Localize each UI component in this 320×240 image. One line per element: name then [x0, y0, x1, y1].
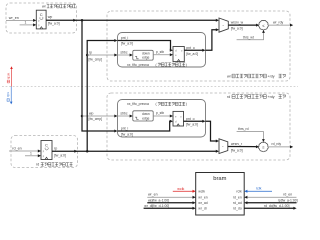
svg-text:rd_rdy: rd_rdy	[272, 142, 282, 146]
wire rp[fw_cmp] strobe branch	[87, 54, 117, 57]
wire wp vertical to rd side	[82, 20, 118, 132]
wire rp bus horizontal	[52, 150, 219, 153]
svg-text:wr_di[fw_d-1:00]: wr_di[fw_d-1:00]	[144, 204, 169, 208]
svg-text:1: 1	[25, 21, 27, 25]
svg-text:rd_ad: rd_ad	[233, 201, 242, 205]
label pnt_o U1	[186, 46, 195, 50]
svg-text:): )	[186, 102, 187, 106]
wire p_stb U2	[153, 115, 173, 118]
svg-text:rp: rp	[54, 147, 57, 151]
svg-text:wr_rdy: wr_rdy	[273, 20, 283, 24]
svg-text:xx_fifo_precva: xx_fifo_precva	[127, 102, 149, 106]
label rd_en	[12, 146, 21, 150]
svg-text:pnt_i: pnt_i	[121, 127, 129, 131]
clock domain separator dashed line	[2, 86, 298, 88]
label 1 (rd)	[30, 151, 32, 155]
wire rd_do bus	[244, 207, 296, 210]
svg-text:wclk: wclk	[6, 73, 10, 80]
svg-text:rd_do[fw_d-1:00]: rd_do[fw_d-1:00]	[264, 204, 290, 208]
label pnt_i width U2	[121, 132, 133, 136]
flip-flop FF1	[173, 47, 184, 62]
label wr-side diff calc + rdy gen	[227, 74, 286, 78]
svg-text:p_stb: p_stb	[156, 111, 164, 115]
wire pnt_i U2	[118, 120, 174, 131]
subtractor A1 (wr side)	[219, 18, 228, 32]
wire constant-1 (rd)	[25, 154, 41, 157]
svg-text:pnt_o: pnt_o	[186, 117, 195, 121]
wire rd_ad bus	[244, 201, 296, 204]
wire rd_rdy	[268, 145, 293, 148]
counter wr C symbol	[40, 12, 43, 19]
label wclk domain (red, rotated)	[6, 73, 10, 83]
handoff box U2 (address receive, rd side)	[118, 100, 206, 138]
label pnt_i U2	[121, 127, 129, 131]
svg-text:[fw_a:0]: [fw_a:0]	[231, 27, 243, 31]
handoff box U1 (address receive, wr side)	[118, 33, 206, 68]
wire wclk (red)	[173, 190, 196, 193]
rd-side address counter dashed box	[11, 136, 78, 168]
label rp strobe width	[89, 58, 103, 62]
svg-text:rd: rd	[36, 163, 39, 167]
wire rd_en	[9, 150, 41, 153]
node rp junction	[86, 150, 89, 153]
wire wp[fw_cmp] strobe branch	[82, 115, 118, 118]
label pnt_o U2	[186, 117, 195, 121]
svg-text:wr_en: wr_en	[9, 16, 19, 20]
svg-text:[fw_a:0]: [fw_a:0]	[186, 52, 198, 56]
svg-text:[fw_a:0]: [fw_a:0]	[54, 153, 66, 157]
svg-text:rd_en: rd_en	[283, 193, 292, 197]
wire strbc U1	[118, 54, 133, 57]
svg-text:wrsrv_r: wrsrv_r	[231, 142, 243, 146]
svg-text:[fw_cmp]: [fw_cmp]	[89, 117, 103, 121]
label wr_en	[9, 16, 19, 20]
counter rd clock triangle	[45, 157, 48, 159]
svg-text:rp: rp	[89, 51, 92, 55]
label pnt_i width U1	[121, 42, 133, 46]
bram block	[196, 173, 245, 216]
svg-text:wrsrv_w: wrsrv_w	[231, 21, 244, 25]
label wr_rdy	[273, 20, 283, 24]
label wrsrv_r	[231, 142, 243, 146]
svg-text:strbc: strbc	[120, 51, 127, 55]
bram right port names	[233, 190, 242, 211]
svg-text:[fw_a:0]: [fw_a:0]	[121, 42, 133, 46]
wr-side address counter dashed box	[6, 3, 77, 33]
svg-text:+rdy: +rdy	[268, 74, 275, 78]
svg-text:wp: wp	[48, 15, 53, 19]
label strbc U1	[120, 51, 127, 55]
wclk domain red arrow	[10, 66, 13, 86]
label rd_ad bus	[278, 198, 298, 202]
label rd_do bus	[264, 204, 290, 208]
label wp strobe width	[89, 117, 103, 121]
rd-side diff-calc dashed box	[107, 93, 290, 160]
wire wrsrv_r	[228, 145, 259, 148]
label wp strobe	[89, 112, 93, 116]
svg-text:C: C	[45, 143, 48, 148]
label 1 (wr)	[25, 21, 27, 25]
label wrsrv_r width	[231, 148, 243, 152]
wire wp bus horizontal	[46, 19, 219, 22]
label wp width	[48, 21, 60, 25]
label rd_en to bram	[283, 193, 292, 197]
svg-text:edge: edge	[142, 117, 149, 121]
svg-text:rd: rd	[227, 95, 230, 99]
label p_stb U1	[156, 50, 164, 54]
svg-text:edge: edge	[142, 56, 149, 60]
svg-text:wr_ad: wr_ad	[198, 201, 208, 205]
svg-text:rd_en: rd_en	[12, 146, 21, 150]
svg-text:wclk: wclk	[198, 190, 205, 194]
comparator CMP2 (rd side)	[259, 142, 269, 152]
label rclk domain (blue, rotated)	[6, 92, 10, 101]
label pnt_o width U1	[186, 52, 198, 56]
node rp strobe junction	[86, 54, 89, 57]
bram left port names	[198, 190, 208, 211]
label rd_rdy	[272, 142, 282, 146]
wire wr_di bus	[144, 207, 196, 210]
label rd-side address counter (rd + kanji)	[36, 163, 72, 167]
counter wr block	[36, 10, 46, 29]
label U1 name	[127, 63, 187, 67]
wr-side diff-calc dashed box	[107, 11, 290, 81]
wire rd_en to bram	[244, 196, 296, 199]
counter rd block	[41, 141, 52, 160]
label rp width	[54, 153, 66, 157]
svg-text:wp[fw_a-1:00]: wp[fw_a-1:00]	[148, 198, 169, 202]
counter wr clock triangle	[40, 27, 43, 29]
wire thrs_rd	[237, 132, 265, 143]
node wp junction	[81, 19, 84, 22]
flip-flop FF2	[173, 111, 184, 126]
svg-text:wr_en: wr_en	[148, 193, 158, 197]
label wr_di bus	[144, 204, 169, 208]
svg-text:1: 1	[30, 151, 32, 155]
down-edge detector U1	[133, 50, 153, 60]
wire rclk (blue)	[244, 190, 272, 193]
node wp strobe junction	[81, 115, 84, 118]
counter rd C symbol	[45, 143, 48, 150]
label p_stb U2	[156, 111, 164, 115]
svg-text:thrs_wt: thrs_wt	[243, 35, 254, 39]
svg-text:[fw_a:0]: [fw_a:0]	[121, 132, 133, 136]
svg-text:+rdy: +rdy	[268, 95, 275, 99]
wire wr_en	[6, 19, 36, 22]
svg-text:rp[fw_a-1:00]: rp[fw_a-1:00]	[278, 198, 298, 202]
svg-text:rd_do: rd_do	[233, 207, 242, 211]
wire strbc U2	[118, 115, 133, 118]
svg-text:thrs_rd: thrs_rd	[238, 127, 249, 131]
wire wrsrv_w	[228, 24, 259, 27]
subtractor A2 (rd side)	[219, 139, 228, 154]
label thrs_wt	[243, 35, 254, 39]
svg-text:wclk: wclk	[177, 187, 184, 191]
wire p_stb U1	[153, 53, 173, 56]
label thrs_rd	[238, 127, 249, 131]
wire wr_ad bus	[147, 201, 195, 204]
label rclk (blue)	[256, 187, 262, 191]
label strbc U2	[120, 112, 127, 116]
svg-text:): )	[186, 63, 187, 67]
comparator CMP1 (wr side)	[259, 20, 269, 30]
svg-text:rclk: rclk	[6, 92, 10, 97]
label pnt_i U1	[121, 36, 129, 40]
svg-text:[fw_cmp]: [fw_cmp]	[89, 58, 103, 62]
wire rp vertical to wr side	[87, 39, 117, 151]
svg-text:wr_en: wr_en	[198, 195, 208, 199]
svg-text:bram: bram	[213, 176, 226, 182]
wire pnt_o U2	[184, 120, 220, 143]
wire constant-1 (wr)	[20, 23, 37, 26]
svg-text:wp: wp	[89, 112, 93, 116]
label rd-side diff calc + rdy gen	[227, 95, 286, 99]
wire wr_rdy	[268, 24, 293, 27]
svg-text:rclk: rclk	[256, 187, 262, 191]
svg-text:wr_di: wr_di	[198, 207, 207, 211]
wire pnt_o U1	[184, 28, 219, 52]
svg-text:xx_fifo_precva: xx_fifo_precva	[127, 63, 149, 67]
svg-text:rd_en: rd_en	[233, 195, 242, 199]
label wr_ad bus	[148, 198, 169, 202]
label wrsrv_w width	[231, 27, 243, 31]
svg-text:[fw_a:0]: [fw_a:0]	[231, 148, 243, 152]
label wp	[48, 15, 53, 19]
label wrsrv_w	[231, 21, 244, 25]
svg-text:pnt_o: pnt_o	[186, 46, 195, 50]
svg-text:[fw_a:0]: [fw_a:0]	[186, 123, 198, 127]
label U2 name	[127, 102, 187, 106]
wire wr_en to bram	[147, 196, 195, 199]
label rp	[54, 147, 57, 151]
svg-text:pnt_i: pnt_i	[121, 36, 129, 40]
svg-text:rclk: rclk	[236, 190, 242, 194]
svg-text:C: C	[40, 12, 43, 17]
svg-text:[fw_a:0]: [fw_a:0]	[48, 21, 60, 25]
svg-text:strbc: strbc	[120, 112, 127, 116]
counter wr pin marks	[38, 20, 40, 28]
label rp strobe	[89, 51, 92, 55]
label pnt_o width U2	[186, 123, 198, 127]
label bram title	[213, 176, 226, 182]
rclk domain blue arrow	[10, 87, 13, 105]
wire thrs_wt	[237, 30, 265, 40]
down-edge detector U2	[133, 111, 153, 121]
svg-text:p_stb: p_stb	[156, 50, 164, 54]
label wclk (red)	[177, 187, 184, 191]
label wr-side address counter (wr + kanji)	[42, 5, 76, 9]
label wr_en to bram	[148, 193, 158, 197]
counter rd pin marks	[43, 150, 45, 158]
wire pnt_i U1	[118, 41, 174, 52]
